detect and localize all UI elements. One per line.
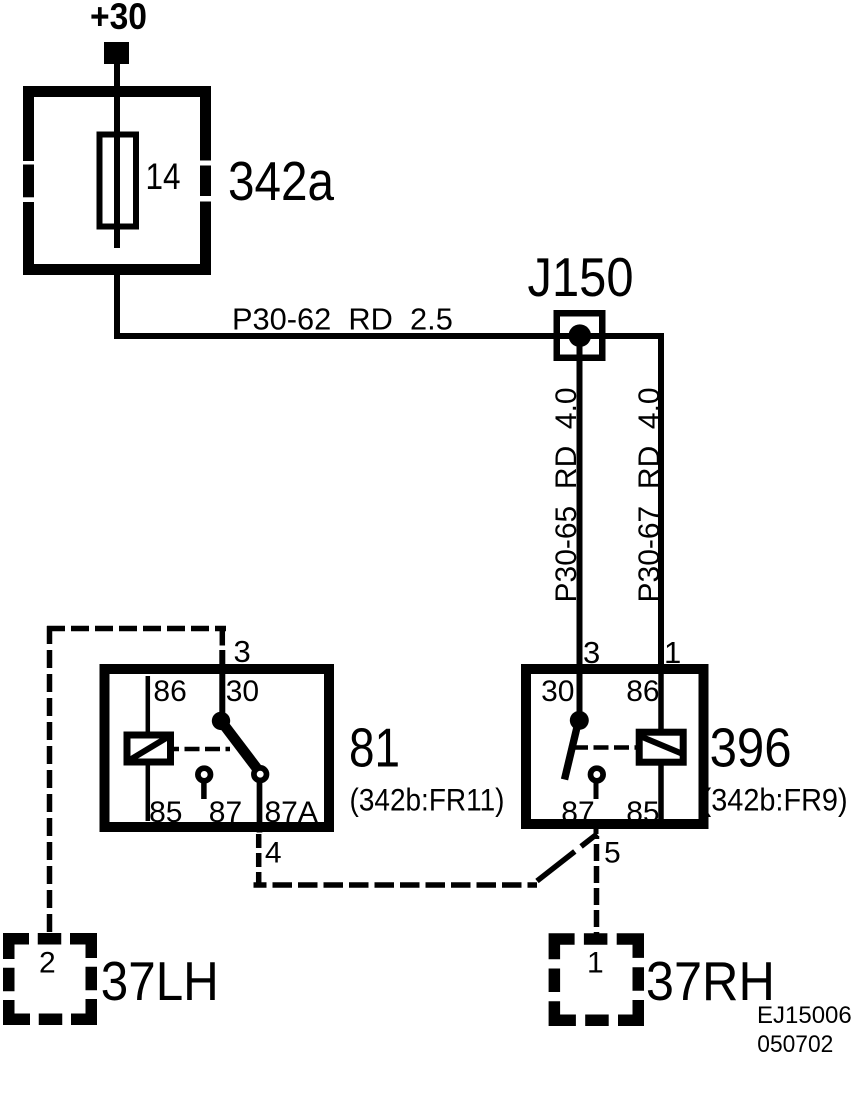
svg-text:3: 3	[583, 635, 600, 670]
svg-text:30: 30	[226, 675, 259, 708]
svg-text:P30-65 RD 4.0: P30-65 RD 4.0	[550, 387, 583, 602]
svg-text:5: 5	[604, 837, 621, 870]
svg-text:37RH: 37RH	[646, 950, 775, 1012]
svg-text:J150: J150	[528, 246, 634, 308]
svg-text:37LH: 37LH	[101, 950, 219, 1012]
svg-text:342a: 342a	[228, 150, 334, 212]
svg-text:P30-62 RD 2.5: P30-62 RD 2.5	[232, 302, 453, 337]
svg-text:85: 85	[149, 796, 182, 829]
svg-text:(342b:FR11): (342b:FR11)	[350, 782, 505, 818]
svg-text:4: 4	[265, 837, 282, 870]
svg-text:87: 87	[209, 796, 242, 829]
svg-text:(342b:FR9): (342b:FR9)	[702, 782, 848, 818]
svg-text:P30-67 RD 4.0: P30-67 RD 4.0	[633, 387, 666, 602]
svg-text:30: 30	[541, 675, 574, 708]
svg-text:85: 85	[626, 796, 659, 829]
svg-text:1: 1	[664, 635, 681, 670]
svg-text:EJ15006: EJ15006	[757, 1002, 852, 1029]
svg-text:87A: 87A	[265, 796, 318, 829]
svg-text:86: 86	[626, 675, 659, 708]
svg-text:86: 86	[153, 675, 186, 708]
svg-text:+30: +30	[90, 0, 147, 37]
svg-text:396: 396	[710, 717, 792, 779]
svg-text:2: 2	[39, 947, 56, 980]
svg-text:3: 3	[234, 634, 251, 669]
svg-text:1: 1	[587, 947, 604, 980]
svg-text:87: 87	[561, 796, 594, 829]
svg-text:14: 14	[146, 156, 181, 197]
svg-text:81: 81	[349, 717, 400, 779]
svg-text:050702: 050702	[757, 1031, 833, 1058]
